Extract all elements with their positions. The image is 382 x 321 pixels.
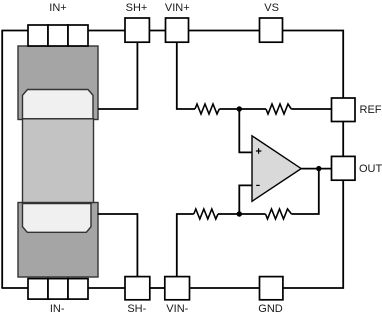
wire SH+ to VIN+ bbox=[149, 30, 165, 32]
shunt resistor RS lower sense band bbox=[23, 204, 92, 233]
pin box IN- segment 3 bbox=[68, 279, 88, 300]
svg-text:VS: VS bbox=[264, 2, 279, 14]
wire node B to R4 bbox=[218, 213, 266, 215]
wire GND to VIN- bbox=[190, 287, 260, 289]
wire OUT to bottom corner bbox=[283, 180, 343, 288]
wire node B to op-amp - input bbox=[239, 185, 252, 214]
pin box REF bbox=[332, 98, 356, 122]
shunt resistor RS upper sense band bbox=[23, 90, 94, 119]
wire VIN+ to VS bbox=[189, 30, 260, 32]
op-amp U1 body bbox=[252, 136, 301, 202]
resistor R2 bbox=[266, 104, 291, 114]
pin box IN- segment 2 bbox=[48, 279, 68, 300]
pin box IN+ segment 3 bbox=[68, 25, 88, 46]
wire op-amp output to OUT bbox=[301, 168, 331, 170]
wire SH- sense tap bbox=[98, 214, 138, 277]
svg-text:GND: GND bbox=[258, 303, 283, 315]
op-amp U1 non-inverting input + mark bbox=[256, 148, 262, 154]
output node junction dot bbox=[316, 166, 321, 171]
wire VIN- branch to bottom resistor row bbox=[177, 214, 194, 277]
svg-text:IN-: IN- bbox=[50, 303, 65, 315]
shunt resistor RS resistive element bbox=[23, 119, 94, 203]
svg-text:IN+: IN+ bbox=[49, 2, 66, 14]
pin box VS bbox=[260, 18, 283, 42]
svg-text:SH+: SH+ bbox=[126, 2, 148, 14]
pin box IN- segment 1 bbox=[28, 279, 48, 300]
node A junction dot bbox=[237, 106, 242, 111]
pin box OUT bbox=[332, 156, 356, 180]
wire VIN- to SH- bbox=[149, 287, 164, 289]
svg-text:OUT: OUT bbox=[359, 163, 382, 175]
pin box GND bbox=[260, 277, 283, 300]
pin box IN+ segment 2 bbox=[48, 25, 68, 46]
wire node A to R2 bbox=[219, 108, 266, 110]
svg-text:VIN+: VIN+ bbox=[165, 2, 190, 14]
wire VS to right corner bbox=[283, 31, 344, 99]
svg-text:SH-: SH- bbox=[127, 303, 146, 315]
op-amp U1 bbox=[252, 136, 301, 202]
shunt resistor RS top terminal block bbox=[18, 46, 98, 120]
pin box VIN+ bbox=[166, 18, 189, 42]
wire VIN+ branch down to top resistor row bbox=[177, 42, 195, 109]
svg-text:REF: REF bbox=[360, 104, 382, 116]
wire top bus segment to IN+ bbox=[1, 30, 28, 32]
pin box VIN- bbox=[165, 277, 190, 300]
wire IN- to left bus bbox=[1, 287, 28, 289]
wire SH+ sense tap bbox=[98, 42, 137, 109]
pin box IN+ segment 1 bbox=[28, 25, 48, 46]
resistor R1 bbox=[195, 104, 219, 114]
shunt resistor RS bottom terminal block bbox=[18, 203, 98, 278]
node B junction dot bbox=[237, 211, 242, 216]
pin box SH- bbox=[125, 277, 150, 300]
wire REF to OUT bbox=[342, 122, 344, 157]
wire SH- to IN- bbox=[88, 287, 125, 289]
wire R4 feedback up to output node bbox=[292, 169, 319, 214]
wire R2 to REF bbox=[291, 108, 331, 110]
wire IN+ to SH+ bbox=[88, 30, 125, 32]
pin box SH+ bbox=[125, 18, 149, 42]
wire node A to op-amp + input bbox=[239, 109, 252, 152]
svg-text:VIN-: VIN- bbox=[166, 303, 188, 315]
resistor R4 bbox=[266, 209, 292, 219]
op-amp U1 inverting input - mark bbox=[256, 184, 260, 186]
resistor R3 bbox=[194, 209, 218, 219]
wire left vertical bus bbox=[1, 31, 3, 289]
